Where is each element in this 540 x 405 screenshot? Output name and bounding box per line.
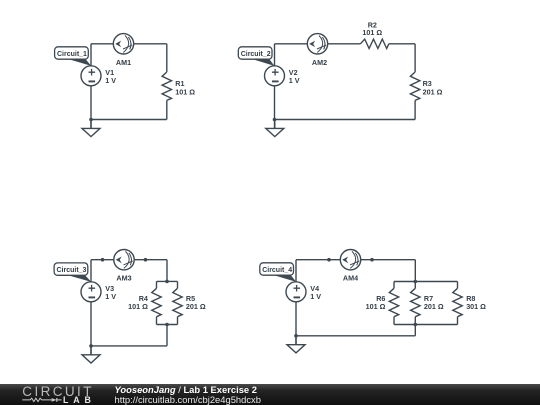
flag Circuit_1 — [69, 59, 92, 66]
svg-text:201 Ω: 201 Ω — [424, 302, 444, 311]
resistor R6 — [389, 288, 398, 316]
wire — [457, 317, 459, 325]
resistor R7 — [411, 288, 420, 316]
node junction — [414, 280, 418, 284]
wire — [296, 335, 415, 337]
wire — [91, 119, 167, 121]
wire — [286, 282, 306, 302]
node terminal — [327, 258, 331, 262]
wire — [274, 86, 276, 129]
svg-text:301 Ω: 301 Ω — [466, 302, 486, 311]
wire — [265, 66, 285, 86]
resistor R5 — [173, 288, 182, 316]
wire — [156, 317, 158, 325]
svg-text:101 Ω: 101 Ω — [362, 28, 382, 37]
ground — [90, 120, 92, 129]
ground — [274, 120, 276, 129]
wire — [90, 44, 92, 66]
node terminal — [101, 258, 105, 262]
svg-text:AM2: AM2 — [312, 58, 327, 67]
wire — [134, 43, 167, 45]
wire — [394, 324, 458, 326]
node terminal — [370, 258, 374, 262]
wire — [414, 317, 416, 325]
ammeter AM2 — [307, 34, 327, 54]
svg-text:201 Ω: 201 Ω — [423, 87, 443, 96]
wire — [90, 260, 92, 282]
node junction — [294, 334, 298, 338]
wire — [81, 282, 101, 302]
node terminal — [144, 258, 148, 262]
wire — [91, 345, 167, 347]
wire — [414, 282, 416, 289]
wire — [157, 324, 178, 326]
node junction — [414, 323, 418, 327]
wire — [393, 282, 395, 289]
wire — [81, 66, 101, 86]
wire — [134, 259, 167, 261]
svg-text:101 Ω: 101 Ω — [128, 302, 148, 311]
resistor R3 — [410, 72, 419, 100]
wire — [296, 259, 340, 261]
node junction — [89, 118, 93, 122]
attribution line 1 — [115, 385, 257, 395]
ground — [295, 336, 297, 345]
wire — [91, 259, 114, 261]
wire — [274, 44, 276, 66]
wire — [394, 281, 458, 283]
wire — [275, 119, 416, 121]
svg-text:AM3: AM3 — [116, 273, 131, 282]
wire — [90, 86, 92, 129]
flag Circuit_4 — [274, 275, 297, 282]
resistor R4 — [152, 288, 161, 316]
CircuitLab logo text CIRCUIT — [22, 385, 94, 399]
wire — [90, 302, 92, 355]
svg-text:1 V: 1 V — [289, 76, 300, 85]
wire — [166, 325, 168, 346]
node junction — [165, 323, 169, 327]
footer bar — [0, 384, 540, 405]
svg-text:Circuit_2: Circuit_2 — [241, 51, 271, 58]
svg-text:Circuit_3: Circuit_3 — [57, 267, 87, 274]
wire — [414, 260, 416, 282]
flag Circuit_3 — [68, 275, 91, 282]
wire — [414, 100, 416, 119]
wire — [393, 317, 395, 325]
svg-text:101 Ω: 101 Ω — [175, 87, 195, 96]
svg-text:AM1: AM1 — [116, 58, 131, 67]
ammeter AM3 — [114, 250, 134, 270]
flag Circuit_2 — [252, 59, 274, 66]
node junction — [89, 344, 93, 348]
wire — [295, 260, 297, 282]
wire — [177, 281, 179, 288]
logo schematic squiggle — [22, 396, 64, 405]
node junction — [273, 118, 277, 122]
wire — [166, 44, 168, 72]
svg-text:1 V: 1 V — [105, 292, 116, 301]
ammeter AM4 — [340, 250, 360, 270]
ammeter AM1 — [113, 34, 133, 54]
svg-text:1 V: 1 V — [310, 292, 321, 301]
wire — [414, 44, 416, 72]
svg-text:Circuit_4: Circuit_4 — [262, 267, 292, 274]
svg-text:201 Ω: 201 Ω — [186, 302, 206, 311]
wire — [361, 259, 416, 261]
wire — [166, 100, 168, 119]
svg-text:AM4: AM4 — [343, 273, 358, 282]
wire — [457, 282, 459, 289]
svg-text:Circuit_1: Circuit_1 — [57, 51, 87, 58]
CircuitLab logo text LAB — [63, 396, 96, 405]
wire — [328, 43, 361, 45]
wire — [91, 43, 113, 45]
resistor R2 — [360, 39, 388, 48]
ground — [90, 346, 92, 355]
wire — [275, 43, 308, 45]
svg-text:101 Ω: 101 Ω — [366, 302, 386, 311]
wire — [156, 281, 158, 288]
attribution line 2 — [115, 395, 261, 405]
node junction — [165, 280, 169, 284]
wire — [414, 325, 416, 336]
svg-text:1 V: 1 V — [105, 76, 116, 85]
wire — [177, 317, 179, 325]
wire — [157, 280, 178, 282]
resistor R1 — [162, 72, 171, 100]
wire — [389, 43, 415, 45]
wire — [295, 302, 297, 345]
resistor R8 — [453, 288, 462, 316]
wire — [166, 260, 168, 282]
